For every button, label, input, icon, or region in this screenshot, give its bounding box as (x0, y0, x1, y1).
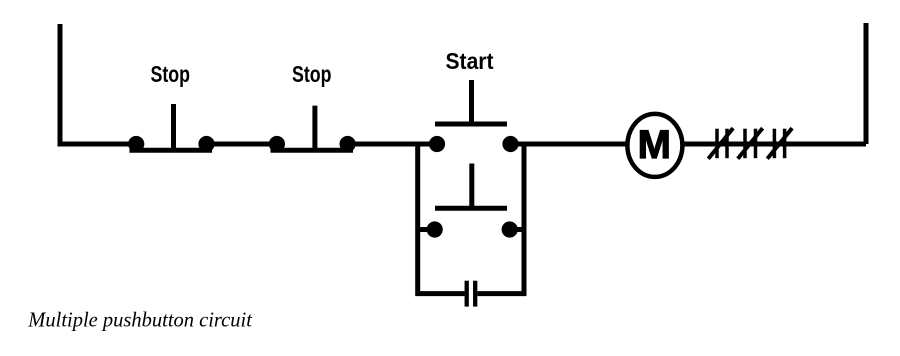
pushbutton PB1 Stop (NC) (128, 61, 215, 153)
svg-text:Stop: Stop (292, 61, 332, 87)
wire stub left (418, 227, 430, 232)
wire NO bridge bar (435, 206, 507, 211)
overload OL heater element 3 (767, 128, 792, 159)
wire parallel branch left vertical (418, 144, 465, 294)
node contact dot (128, 136, 144, 152)
wire contact left plate (465, 281, 469, 307)
svg-text:Stop: Stop (151, 61, 191, 87)
pushbutton PB3 Start (NO, top) (429, 48, 519, 152)
wire plunger (469, 80, 474, 124)
wire rung segment Stop2 to Start (345, 142, 440, 147)
wire plunger (469, 164, 474, 209)
node contact dot (269, 136, 285, 152)
contact M1 seal-in (NO contact) (467, 281, 476, 307)
pushbutton PB4 Start (NO, lower parallel) (418, 164, 524, 238)
wire stub right (514, 227, 524, 232)
node contact dot (429, 136, 445, 152)
wire parallel branch right vertical (477, 144, 524, 294)
wire contact right plate (473, 281, 477, 307)
wire plunger (171, 104, 176, 153)
node contact dot (198, 136, 214, 152)
pushbutton PB2 Stop (NC) (269, 61, 356, 153)
wire rung segment motor to right rail (682, 142, 866, 147)
wire plunger (312, 106, 317, 153)
wire NC bridge bar (271, 148, 354, 153)
wire rung segment Start to motor (508, 142, 628, 147)
wire right rail L2 (864, 23, 869, 144)
node contact dot (427, 221, 443, 237)
overload OL heater element 2 (738, 128, 763, 159)
svg-text:Start: Start (446, 48, 494, 74)
wire NO bridge bar (435, 122, 507, 127)
svg-text:M: M (638, 123, 671, 167)
node contact dot (502, 221, 518, 237)
wire left rail L1 (60, 24, 133, 144)
svg-text:Multiple pushbutton circuit: Multiple pushbutton circuit (27, 308, 253, 332)
overload OL heater element 1 (708, 128, 733, 159)
motor M (627, 114, 682, 177)
node contact dot (340, 136, 356, 152)
wire rung segment between Stop1 and Stop2 (204, 142, 280, 147)
node contact dot (502, 136, 518, 152)
wire NC bridge bar (130, 148, 213, 153)
